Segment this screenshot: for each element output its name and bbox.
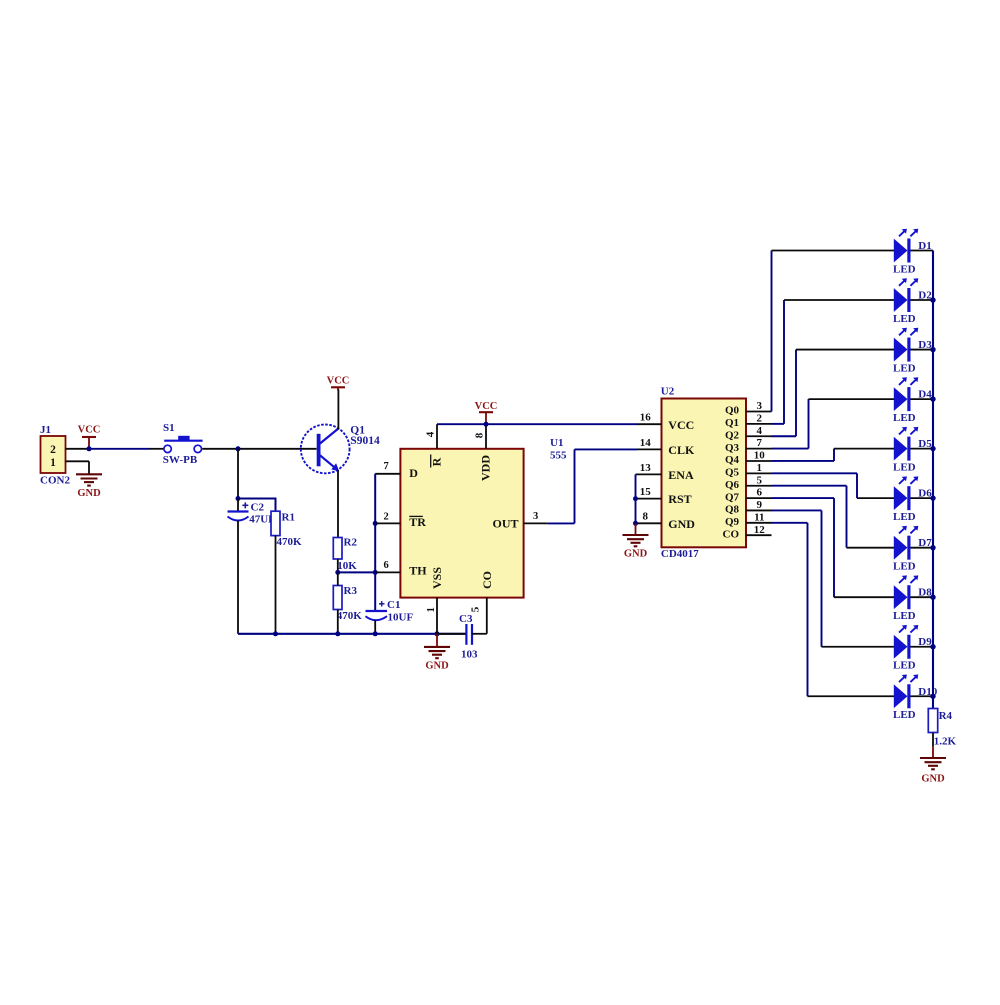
ground (J1) xyxy=(76,473,102,475)
svg-text:LED: LED xyxy=(893,263,916,275)
svg-text:S9014: S9014 xyxy=(350,435,380,447)
wire Q4 to LED D5 xyxy=(772,460,835,462)
wire Q5 to LED D6 xyxy=(772,472,858,474)
pin 6 Q7 stub xyxy=(746,497,772,499)
pin 3 Q0 stub xyxy=(746,411,772,413)
svg-text:8: 8 xyxy=(474,432,486,438)
svg-text:3: 3 xyxy=(757,400,763,412)
svg-text:10K: 10K xyxy=(337,560,357,572)
svg-text:U1: U1 xyxy=(550,437,563,449)
pin 7 D stub xyxy=(375,473,400,475)
svg-text:GND: GND xyxy=(77,488,101,499)
ground (CD4017) xyxy=(635,523,637,534)
svg-text:GND: GND xyxy=(425,661,449,672)
wire OUT to CLK xyxy=(548,522,575,524)
diode D6 LED xyxy=(857,497,894,499)
svg-text:14: 14 xyxy=(640,437,652,449)
wire Q8 to LED D9 xyxy=(772,509,822,511)
pin 5 Q6 stub xyxy=(746,485,772,487)
svg-text:D2: D2 xyxy=(918,290,932,302)
wire C2 to ground rail xyxy=(237,521,239,634)
svg-text:U2: U2 xyxy=(661,386,675,398)
diode D7 LED xyxy=(847,547,895,549)
svg-text:1: 1 xyxy=(50,457,56,469)
svg-text:ENA: ENA xyxy=(668,468,694,482)
svg-text:R1: R1 xyxy=(282,512,295,524)
diode D10 LED xyxy=(808,695,895,697)
svg-text:R3: R3 xyxy=(344,585,358,597)
ground (555) xyxy=(436,634,438,647)
svg-text:4: 4 xyxy=(757,425,763,437)
wire VCC node to switch S1 xyxy=(89,448,149,450)
svg-text:LED: LED xyxy=(893,362,916,374)
diode D3 LED xyxy=(796,349,894,351)
node TR junction xyxy=(373,521,378,526)
svg-text:VDD: VDD xyxy=(479,455,493,481)
pin 9 Q8 stub xyxy=(746,509,772,511)
svg-text:GND: GND xyxy=(921,773,945,784)
svg-text:470K: 470K xyxy=(277,536,303,548)
svg-text:C1: C1 xyxy=(387,599,400,611)
node TH junction xyxy=(373,570,378,575)
svg-text:Q9: Q9 xyxy=(725,516,740,528)
capacitor C1 10UF xyxy=(374,572,376,611)
pin 15 RST stub xyxy=(636,498,662,500)
svg-text:CD4017: CD4017 xyxy=(661,548,699,560)
svg-text:103: 103 xyxy=(461,649,478,661)
svg-text:555: 555 xyxy=(550,450,567,462)
pin 5 CO stub xyxy=(486,598,488,619)
svg-text:CO: CO xyxy=(723,528,740,540)
svg-text:D4: D4 xyxy=(918,389,932,401)
op-amp U2 CD4017 IC xyxy=(662,399,747,548)
pin 2 Q1 stub xyxy=(746,423,772,425)
svg-text:11: 11 xyxy=(754,511,764,523)
resistor R4 1.2K xyxy=(928,709,937,733)
diode D4 LED xyxy=(809,398,895,400)
wire Q1 to LED D2 xyxy=(772,423,785,425)
svg-text:CON2: CON2 xyxy=(40,475,70,487)
wire R2/R3 node to TH vertical xyxy=(338,571,375,573)
power VCC (Q1) xyxy=(331,386,345,388)
diode D9 LED xyxy=(822,646,895,648)
svg-text:1: 1 xyxy=(425,607,437,613)
svg-text:J1: J1 xyxy=(40,424,51,436)
svg-text:VCC: VCC xyxy=(475,401,498,412)
svg-text:LED: LED xyxy=(893,610,916,622)
pin 10 Q4 stub xyxy=(746,460,772,462)
svg-text:TH: TH xyxy=(409,564,427,578)
wire J1 pin2 to VCC node xyxy=(66,448,90,450)
wire Q3 to LED D4 xyxy=(772,448,809,450)
svg-text:13: 13 xyxy=(640,462,652,474)
wire Q6 to LED D7 xyxy=(772,485,847,487)
svg-text:7: 7 xyxy=(384,461,389,472)
svg-text:LED: LED xyxy=(893,412,916,424)
svg-text:CLK: CLK xyxy=(668,443,695,457)
svg-text:Q7: Q7 xyxy=(725,491,740,503)
svg-text:LED: LED xyxy=(893,709,916,721)
wire left vertical bus of 555 (pins 7,2,6) xyxy=(374,474,376,573)
svg-text:4: 4 xyxy=(425,431,437,437)
wire Q0 to LED D1 xyxy=(771,251,773,412)
svg-text:LED: LED xyxy=(893,462,916,474)
node VCC-J1 junction xyxy=(87,446,92,451)
resistor R1 470K xyxy=(271,511,280,535)
svg-text:2: 2 xyxy=(384,512,389,523)
pin 14 CLK stub xyxy=(637,448,662,450)
wire S1 to Q1 base xyxy=(202,448,316,450)
svg-text:D3: D3 xyxy=(918,339,932,351)
svg-text:1.2K: 1.2K xyxy=(934,736,957,748)
svg-text:RST: RST xyxy=(668,492,691,506)
power VCC (J1) xyxy=(82,436,96,438)
svg-text:GND: GND xyxy=(668,517,695,531)
power VCC (555) xyxy=(479,411,493,413)
capacitor C2 47UF xyxy=(237,499,239,512)
svg-text:Q2: Q2 xyxy=(725,429,740,441)
svg-text:6: 6 xyxy=(757,487,763,499)
svg-text:5: 5 xyxy=(470,606,482,612)
svg-text:7: 7 xyxy=(757,437,763,449)
svg-text:LED: LED xyxy=(893,511,916,523)
svg-text:VCC: VCC xyxy=(78,425,101,436)
connector J1 xyxy=(41,436,66,473)
wire Q2 to LED D3 xyxy=(772,435,797,437)
svg-text:S1: S1 xyxy=(163,422,175,434)
pin 16 VCC stub xyxy=(637,423,662,425)
pin 3 OUT stub xyxy=(524,522,548,524)
svg-text:R2: R2 xyxy=(344,537,358,549)
switch S1 SW-PB xyxy=(164,445,171,452)
svg-text:R: R xyxy=(430,457,444,466)
svg-text:D7: D7 xyxy=(918,537,932,549)
svg-text:1: 1 xyxy=(757,462,763,474)
diode D2 LED xyxy=(784,299,894,301)
resistor R3 470K xyxy=(333,586,342,610)
svg-text:Q1: Q1 xyxy=(725,417,739,429)
svg-text:12: 12 xyxy=(754,524,766,536)
svg-text:LED: LED xyxy=(893,313,916,325)
wire 555 top rail to CD4017 pin16 xyxy=(437,423,637,425)
wire junction down to C2 node xyxy=(237,449,239,499)
svg-text:10UF: 10UF xyxy=(388,611,414,623)
svg-text:VSS: VSS xyxy=(430,567,444,589)
svg-text:GND: GND xyxy=(624,549,648,560)
wire ENA/RST/GND tie xyxy=(635,474,637,523)
pin 8 GND stub xyxy=(636,522,662,524)
node junction at x238 main wire xyxy=(236,446,241,451)
diode D1 LED xyxy=(772,250,895,252)
capacitor C3 103 xyxy=(437,633,466,635)
wire LED cathode bus xyxy=(932,251,934,709)
pin 11 Q9 stub xyxy=(746,522,772,524)
wire Q1 emitter to R2 xyxy=(337,470,339,538)
svg-text:5: 5 xyxy=(757,474,763,486)
pin 1 Q5 stub xyxy=(746,472,772,474)
svg-text:D8: D8 xyxy=(918,587,932,599)
ground (R4) xyxy=(920,757,946,759)
svg-text:2: 2 xyxy=(757,412,763,424)
wire junction to R1 top xyxy=(238,498,276,500)
svg-text:D5: D5 xyxy=(918,438,932,450)
svg-text:R4: R4 xyxy=(939,710,953,722)
svg-text:Q8: Q8 xyxy=(725,504,740,516)
svg-text:Q0: Q0 xyxy=(725,405,740,417)
pin 13 ENA stub xyxy=(636,473,662,475)
wire VCC to Q1 collector xyxy=(337,390,339,430)
svg-text:VCC: VCC xyxy=(327,376,350,387)
pin 4 Q2 stub xyxy=(746,435,772,437)
node C2/R1 junction xyxy=(236,496,241,501)
pin 12 CO stub xyxy=(746,534,772,536)
svg-text:C3: C3 xyxy=(459,613,473,625)
svg-text:D: D xyxy=(409,466,418,480)
svg-text:6: 6 xyxy=(384,560,389,571)
diode D5 LED xyxy=(834,448,894,450)
pin 7 Q3 stub xyxy=(746,448,772,450)
svg-text:9: 9 xyxy=(757,499,763,511)
transistor Q1 S9014 xyxy=(301,425,350,474)
diode D8 LED xyxy=(834,596,894,598)
resistor R2 10K xyxy=(333,538,342,560)
svg-text:VCC: VCC xyxy=(668,418,694,432)
svg-text:470K: 470K xyxy=(337,610,363,622)
svg-text:LED: LED xyxy=(893,660,916,672)
svg-text:10: 10 xyxy=(754,450,766,462)
svg-text:OUT: OUT xyxy=(492,516,518,530)
node R2/R3 junction xyxy=(335,570,340,575)
svg-text:Q3: Q3 xyxy=(725,442,740,454)
op-amp U1 555 timer IC xyxy=(400,449,523,598)
svg-text:Q4: Q4 xyxy=(725,454,740,466)
pin 6 TH stub xyxy=(375,571,400,573)
svg-text:15: 15 xyxy=(640,486,652,498)
pin 4 R stub xyxy=(436,424,438,449)
svg-text:2: 2 xyxy=(50,444,56,456)
svg-text:SW-PB: SW-PB xyxy=(163,454,198,466)
wire Q7 to LED D8 xyxy=(772,497,835,499)
node VCC/pin8 junction xyxy=(484,422,489,427)
svg-text:LED: LED xyxy=(893,561,916,573)
wire R1 bottom to rail xyxy=(275,536,277,634)
svg-text:8: 8 xyxy=(643,511,649,523)
svg-text:D9: D9 xyxy=(918,636,932,648)
wire J1 pin1 to ground xyxy=(66,460,90,462)
svg-text:D1: D1 xyxy=(918,240,931,252)
svg-text:C2: C2 xyxy=(251,501,265,513)
svg-text:Q5: Q5 xyxy=(725,467,740,479)
svg-text:CO: CO xyxy=(480,571,494,589)
svg-text:Q6: Q6 xyxy=(725,479,740,491)
pin 8 VDD stub xyxy=(485,424,487,449)
svg-text:3: 3 xyxy=(533,511,538,522)
svg-text:16: 16 xyxy=(640,412,652,424)
wire ground rail xyxy=(238,633,466,635)
wire Q9 to LED D10 xyxy=(772,522,808,524)
pin 2 TR stub xyxy=(375,522,400,524)
pin 1 VSS stub xyxy=(436,598,438,634)
svg-text:D6: D6 xyxy=(918,488,932,500)
